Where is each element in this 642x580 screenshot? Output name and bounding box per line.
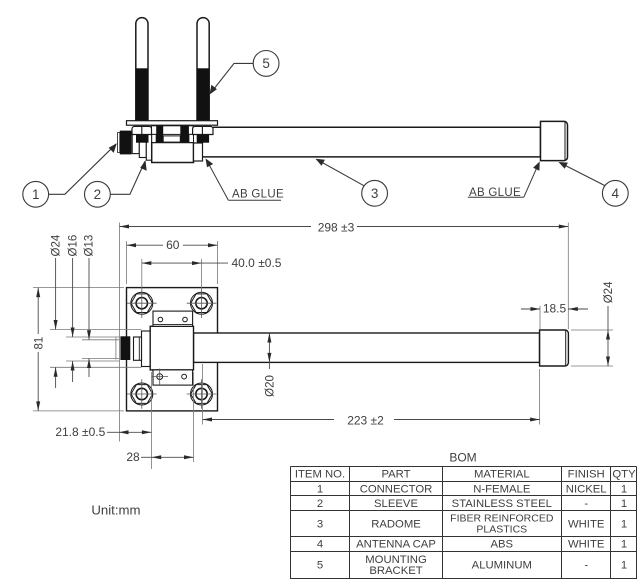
svg-text:81: 81 [33, 337, 45, 350]
bracket right boss (side) [194, 143, 203, 161]
saddle plate (side) [163, 136, 180, 142]
svg-text:1: 1 [621, 498, 627, 510]
bolt top-left [127, 288, 157, 318]
bolt top-right [187, 288, 217, 318]
svg-text:Ø20: Ø20 [265, 375, 277, 397]
balloon 3 leader [317, 159, 365, 185]
svg-text:BRACKET: BRACKET [369, 565, 422, 577]
dim 40.0 [142, 259, 228, 291]
AB GLUE right [468, 162, 540, 198]
svg-text:-: - [584, 560, 588, 572]
bracket lower tab front [153, 370, 193, 385]
radome tube front [194, 333, 540, 362]
balloon 2 leader [110, 161, 145, 194]
svg-text:Ø16: Ø16 [67, 235, 79, 257]
dim 21.8 [107, 372, 152, 469]
svg-text:AB GLUE: AB GLUE [469, 187, 521, 199]
svg-text:2: 2 [94, 187, 102, 202]
DIMENSION TEXTS [33, 221, 615, 465]
dim 298 [120, 223, 569, 442]
balloon 1 leader [49, 144, 116, 194]
svg-text:5: 5 [262, 56, 270, 71]
svg-text:3: 3 [371, 186, 379, 201]
bracket upper tab front [153, 311, 193, 326]
svg-text:QTY: QTY [612, 469, 636, 481]
bracket body front [150, 326, 193, 370]
connector flange front [142, 331, 151, 367]
svg-text:Ø24: Ø24 [50, 234, 62, 256]
balloon 2 [85, 181, 111, 207]
svg-text:ALUMINUM: ALUMINUM [472, 560, 532, 572]
dim 81 [33, 288, 124, 411]
mounting plate (side) [127, 121, 218, 126]
bolt bottom-right [187, 379, 217, 409]
connector ring front [134, 337, 142, 360]
bracket body (side) [152, 143, 194, 163]
dim 60 [127, 241, 218, 284]
dia 13 left dim [88, 258, 90, 340]
svg-text:1: 1 [621, 560, 627, 572]
svg-text:1: 1 [621, 483, 627, 495]
clamp screws black (side) [156, 126, 163, 143]
svg-text:RADOME: RADOME [371, 518, 421, 530]
SIDE VIEW [118, 18, 568, 163]
svg-text:N-FEMALE: N-FEMALE [473, 483, 531, 495]
svg-text:ABS: ABS [490, 539, 513, 551]
svg-text:223 ±2: 223 ±2 [347, 414, 384, 428]
balloon 3 [362, 180, 388, 206]
svg-text:BOM: BOM [449, 451, 476, 465]
svg-text:28: 28 [126, 450, 140, 464]
svg-text:SLEEVE: SLEEVE [374, 498, 418, 510]
u-bolt right leg (side) [197, 18, 209, 121]
svg-text:1: 1 [32, 187, 40, 202]
connector knurl front [120, 336, 130, 360]
hex nut left (side) [132, 126, 152, 134]
svg-text:FINISH: FINISH [568, 469, 605, 481]
svg-text:WHITE: WHITE [568, 539, 605, 551]
svg-text:Ø13: Ø13 [84, 235, 96, 257]
BALLOONS [23, 51, 628, 208]
svg-text:CONNECTOR: CONNECTOR [360, 483, 433, 495]
svg-text:18.5: 18.5 [543, 302, 567, 316]
svg-text:4: 4 [612, 186, 620, 201]
svg-text:WHITE: WHITE [568, 518, 605, 530]
dim 223 [203, 364, 540, 425]
svg-text:298 ±3: 298 ±3 [318, 221, 355, 235]
svg-text:AB GLUE: AB GLUE [232, 189, 284, 201]
connector sleeve steps (side) [132, 134, 139, 153]
bracket side walls (side) [152, 134, 157, 142]
svg-text:STAINLESS STEEL: STAINLESS STEEL [452, 498, 552, 510]
svg-text:21.8 ±0.5: 21.8 ±0.5 [55, 425, 105, 439]
svg-text:4: 4 [317, 539, 323, 551]
mounting plate front [127, 288, 218, 411]
balloon 5 [253, 51, 279, 77]
bolt bottom-left [127, 379, 157, 409]
svg-text:MATERIAL: MATERIAL [474, 469, 530, 481]
AB GLUE left [206, 158, 282, 200]
svg-text:1: 1 [621, 518, 627, 530]
svg-text:NICKEL: NICKEL [566, 483, 607, 495]
svg-text:-: - [584, 498, 588, 510]
hex bolts front [127, 288, 216, 408]
antenna cap (side) [541, 121, 568, 160]
svg-text:PLASTICS: PLASTICS [476, 524, 527, 536]
balloon 1 [23, 181, 49, 207]
balloon 4 leader [560, 163, 605, 186]
svg-text:Ø24: Ø24 [603, 281, 615, 303]
svg-text:1: 1 [621, 539, 627, 551]
dia 16 left dim [72, 258, 74, 337]
DIMENSIONS [33, 223, 613, 470]
dim 28 [141, 372, 194, 462]
svg-text:3: 3 [317, 518, 323, 530]
dim 18.5 [521, 306, 588, 329]
svg-text:2: 2 [317, 498, 323, 510]
antenna cap front [540, 330, 569, 366]
dia 24 left ext [50, 330, 142, 368]
svg-text:ITEM NO.: ITEM NO. [295, 469, 345, 481]
N connector knurl (side) [118, 133, 120, 153]
BOM TABLE [291, 451, 637, 580]
svg-text:40.0 ±0.5: 40.0 ±0.5 [232, 256, 282, 270]
svg-text:Unit:mm: Unit:mm [91, 503, 140, 518]
svg-text:ANTENNA CAP: ANTENNA CAP [356, 539, 436, 551]
svg-text:60: 60 [166, 238, 180, 252]
u-bolt left leg (side) [136, 18, 148, 121]
dia 20 [268, 333, 270, 362]
balloon 5 leader [210, 63, 253, 93]
u-bolt threaded below nuts (side) [136, 134, 149, 142]
cap end ring line (side) [564, 122, 566, 161]
dia 24 right [571, 306, 613, 366]
svg-text:1: 1 [317, 483, 323, 495]
balloon 4 [602, 180, 628, 206]
dia 24 left dim [55, 258, 57, 330]
radome tube (side) [203, 127, 541, 157]
svg-text:5: 5 [317, 560, 323, 572]
FRONT VIEW [120, 288, 568, 411]
svg-text:PART: PART [381, 469, 410, 481]
bracket upper tab (side) [152, 126, 194, 135]
hex nut right (side) [193, 126, 213, 134]
